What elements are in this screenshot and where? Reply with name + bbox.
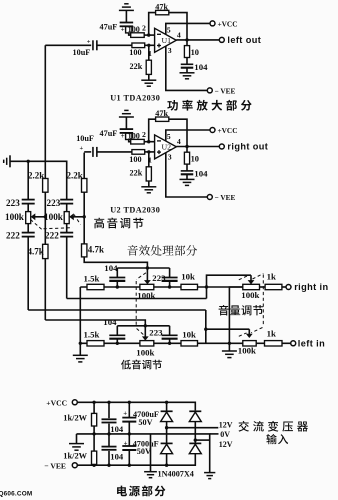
bass R node1 xyxy=(116,285,119,288)
U1 wire pin1->22k xyxy=(148,45,150,60)
label 1N4007X4 xyxy=(158,470,194,479)
svg-text:0V: 0V xyxy=(220,430,230,439)
U1 label 104 xyxy=(194,62,208,72)
label 100k (bass R) xyxy=(137,291,155,301)
svg-text:1.5k: 1.5k xyxy=(84,274,100,284)
U1 resistor 10 xyxy=(184,46,189,58)
U1 ground (47uF top) xyxy=(119,4,134,11)
svg-text:1k: 1k xyxy=(267,328,276,338)
U2 wire pin3 -VEE xyxy=(166,153,208,197)
svg-text:− VEE: − VEE xyxy=(44,461,66,470)
bass R 223 stem up xyxy=(169,268,171,278)
U1 label 100 b xyxy=(129,48,141,57)
svg-text:100k: 100k xyxy=(44,212,64,222)
wire volL->1k xyxy=(256,342,264,344)
U1 wire output xyxy=(176,39,219,41)
resistor 2.2k (left) xyxy=(43,179,48,193)
diode col L xyxy=(166,402,168,465)
U2 plus 10uF xyxy=(80,145,84,152)
wire 0V link xyxy=(150,434,152,472)
junction bottom rail 129.3 xyxy=(128,464,131,467)
U1 resistor 47k xyxy=(156,10,169,14)
label 222 (right) xyxy=(45,231,59,241)
svg-text:− VEE: − VEE xyxy=(215,193,236,202)
junction top rail 166.6 xyxy=(165,401,168,404)
svg-text:2: 2 xyxy=(142,24,146,33)
svg-text:1k: 1k xyxy=(267,272,276,282)
label 高音调节 xyxy=(94,218,143,229)
ground (under bottom rail) xyxy=(144,472,157,478)
wiper wire L xyxy=(206,328,250,330)
bass L wiper xyxy=(142,326,149,341)
bass L bridge wire xyxy=(117,325,169,327)
gang dashes treble c xyxy=(74,215,81,225)
wiper volume L xyxy=(246,329,253,338)
bottom rail xyxy=(77,455,195,465)
wiper treble L xyxy=(31,213,46,220)
svg-text:+: + xyxy=(121,27,125,34)
diode D4 xyxy=(189,443,201,453)
label 2.2k (left) xyxy=(28,170,44,180)
svg-text:left out: left out xyxy=(227,35,261,45)
capacitor 4700uF b xyxy=(122,446,136,450)
wire 12V bot xyxy=(195,439,209,441)
resistor 1k (R) xyxy=(265,284,282,289)
svg-text:− VEE: − VEE xyxy=(215,86,236,95)
junction mid rail 129.3 xyxy=(128,432,131,435)
svg-text:1.5k: 1.5k xyxy=(84,330,100,340)
wire 1k->leftin xyxy=(282,342,291,344)
wire C down to bus xyxy=(66,237,68,299)
svg-text:+VCC: +VCC xyxy=(218,126,238,135)
svg-text:1N4007X4: 1N4007X4 xyxy=(158,470,194,479)
label 100k (bass L) xyxy=(136,348,154,358)
riser L xyxy=(205,310,207,343)
wire volR->1k xyxy=(260,286,266,288)
wire bass left vertical xyxy=(79,287,81,355)
svg-text:100k: 100k xyxy=(136,348,154,358)
resistor 1k/2W b xyxy=(92,451,97,464)
bass R potentiometer 100k xyxy=(140,284,154,289)
svg-text:5: 5 xyxy=(167,132,171,141)
label right in xyxy=(294,282,328,292)
U1 label -VEE xyxy=(215,86,236,95)
U2 pin 5 xyxy=(167,132,171,141)
U2 ground (47uF top) xyxy=(119,110,134,117)
label 223 (bass L) xyxy=(149,328,163,338)
bass L potentiometer 100k xyxy=(140,341,154,346)
label 1k (R) xyxy=(267,272,276,282)
svg-text:+VCC: +VCC xyxy=(218,19,238,28)
U2 label 104 xyxy=(194,169,208,179)
label 4700uF a xyxy=(133,410,159,419)
wire 1k2W a xyxy=(93,402,95,413)
U1 pin 1 xyxy=(148,49,152,58)
label 2.2k (right) xyxy=(67,170,83,180)
gang dashes volume a2 xyxy=(239,276,248,280)
U2 pin 2 xyxy=(142,130,146,139)
label 功率放大部分 xyxy=(167,100,251,111)
U2 ground (104) xyxy=(180,179,195,185)
U2 wire R100b->pin1 xyxy=(145,151,155,153)
terminal +VCC pwr xyxy=(72,400,77,405)
U1 pin 4 xyxy=(177,30,181,39)
U1 wire 22k->gnd xyxy=(148,74,150,80)
svg-text:22k: 22k xyxy=(130,62,143,71)
svg-text:4: 4 xyxy=(177,30,181,39)
U2 resistor 22k xyxy=(146,167,151,181)
ground (mid rail) xyxy=(69,444,84,451)
U2 wire pin2->47k xyxy=(149,119,156,142)
wire 1k->rightin xyxy=(282,286,286,288)
svg-text:104: 104 xyxy=(194,62,208,72)
svg-text:4: 4 xyxy=(177,137,181,146)
wire 1k2W a2 xyxy=(93,426,95,434)
bass L bridge node xyxy=(144,324,147,327)
U1 wire R10->104 xyxy=(186,58,188,65)
capacitor 223 (left) xyxy=(22,200,35,204)
svg-text:4.7k: 4.7k xyxy=(88,244,104,254)
U2 resistor 100 (pin2) xyxy=(131,139,145,144)
bass L capacitor 223 xyxy=(162,335,178,338)
capacitor 222 (left) xyxy=(22,233,35,237)
potentiometer 100k volume L xyxy=(243,341,256,346)
U2 wire 22k->gnd xyxy=(148,181,150,187)
diode D1 xyxy=(161,411,173,421)
U2 resistor 10 xyxy=(184,152,189,164)
label 100k (treble R) xyxy=(44,212,64,222)
label 223 (bass R) xyxy=(152,273,166,283)
U1 label U1 TDA2030 xyxy=(110,94,160,103)
U1 wire input xyxy=(45,44,91,46)
svg-text:10: 10 xyxy=(191,48,199,57)
bass R resistor 10k xyxy=(181,284,198,289)
svg-text:10: 10 xyxy=(191,155,199,164)
wiper volume R xyxy=(248,275,255,284)
U1 resistor 22k xyxy=(146,60,151,74)
label 交流变压器 xyxy=(239,421,308,432)
junction gnd vertical xyxy=(228,342,231,345)
svg-text:104: 104 xyxy=(103,317,117,327)
wire C 223->pot xyxy=(66,204,68,212)
U2 node output xyxy=(185,145,188,148)
U1 terminal -VEE xyxy=(207,88,212,93)
plus 4700a xyxy=(123,410,127,417)
label 4.7k (left) xyxy=(28,247,44,257)
U1 node output xyxy=(185,38,188,41)
U2 wire R10->104 xyxy=(186,164,188,171)
junction bottom rail 166.6 xyxy=(165,464,168,467)
potentiometer 100k treble L xyxy=(26,212,31,224)
gang dashes bass v xyxy=(135,281,137,327)
svg-text:+: + xyxy=(87,39,91,46)
bus A xyxy=(28,309,206,311)
svg-text:+: + xyxy=(123,410,127,417)
svg-text:U1 TDA2030: U1 TDA2030 xyxy=(110,94,160,103)
terminal right in xyxy=(286,285,291,290)
bass L 104 stem up xyxy=(116,326,118,336)
U1 plus 10uF xyxy=(87,39,91,46)
svg-text:47k: 47k xyxy=(155,2,168,11)
junction top rail 109.0 xyxy=(107,401,110,404)
svg-text:22k: 22k xyxy=(130,169,143,178)
label 104 a xyxy=(110,424,124,434)
wire D 2.2k->junction xyxy=(83,192,85,244)
U2 label 47k xyxy=(155,109,168,118)
gang dashes volume a xyxy=(253,274,264,280)
U1 label 10uF xyxy=(73,48,91,57)
U1 wire out->R10 xyxy=(186,40,188,46)
U2 op-amp U2 TDA2030 xyxy=(155,135,177,159)
resistor 1k/2W a xyxy=(92,413,97,426)
svg-text:+: + xyxy=(80,145,84,152)
U1 label 47uF xyxy=(100,22,118,31)
label 音量调节 xyxy=(219,305,264,316)
label 100k (vol L) xyxy=(238,346,256,356)
bass L resistor 10k xyxy=(181,341,198,346)
label 12V top xyxy=(219,420,233,429)
svg-text:100k: 100k xyxy=(238,346,256,356)
bass R 104 stem up xyxy=(116,268,118,278)
U1 wire R100b->pin1 xyxy=(145,44,155,46)
label 1.5k (R) xyxy=(84,274,100,284)
U2 pin 3 xyxy=(168,152,172,161)
label -VEE pwr xyxy=(44,461,66,470)
U1 wire 10uF->R100b xyxy=(97,44,132,46)
U1 capacitor 10uF xyxy=(93,40,97,50)
U1 node pin2 xyxy=(147,33,150,36)
U1 terminal +VCC xyxy=(210,21,215,26)
U1 label 22k xyxy=(130,62,143,71)
U2 wire R100a->pin2 xyxy=(144,141,154,143)
wire column B xyxy=(44,45,46,178)
label 100k (vol R) xyxy=(241,290,259,300)
label 222 (left) xyxy=(6,231,20,241)
label +VCC pwr xyxy=(46,398,67,407)
U1 label left out xyxy=(227,35,261,45)
bass L 223 stem up xyxy=(169,326,171,336)
U1 resistor 100 (pin1) xyxy=(132,43,145,48)
bass L 104 stem dn xyxy=(116,339,118,344)
mid rail xyxy=(77,434,210,473)
resistor 2.2k (right) xyxy=(82,179,87,193)
wire 4700b2 xyxy=(128,450,130,465)
terminal -VEE pwr xyxy=(72,463,77,468)
junction top rail 94.1 xyxy=(92,401,95,404)
U2 label 47uF xyxy=(100,129,118,138)
U2 capacitor 104 xyxy=(181,171,194,174)
U2 wire out->R10 xyxy=(186,147,188,153)
label 低音调节 xyxy=(121,360,162,370)
U1 pin 2 xyxy=(142,24,146,33)
capacitor 4700uF a xyxy=(122,418,136,422)
svg-text:10k: 10k xyxy=(182,330,196,340)
U2 label 22k xyxy=(130,169,143,178)
U2 wire pin1->22k xyxy=(148,152,150,167)
gang dashes treble b xyxy=(44,228,73,229)
0V stub xyxy=(210,433,219,435)
bass R row wire 2 xyxy=(154,286,243,288)
bass R capacitor 223 xyxy=(162,278,178,281)
svg-text:+: + xyxy=(121,133,125,140)
wire 4700a xyxy=(128,402,130,417)
svg-text:223: 223 xyxy=(47,198,61,208)
svg-text:left in: left in xyxy=(298,338,325,348)
wire B 2.2k->junction xyxy=(44,192,46,244)
bass L capacitor 104 xyxy=(109,335,125,338)
svg-text:12V: 12V xyxy=(219,420,233,429)
svg-text:10uF: 10uF xyxy=(76,134,94,143)
gang dashes bass a xyxy=(136,273,146,280)
gang dashes volume v xyxy=(262,275,264,327)
svg-text:U2 TDA2030: U2 TDA2030 xyxy=(110,206,160,215)
wire ground rail xyxy=(10,161,67,199)
U2 plus 47uF xyxy=(121,133,125,140)
svg-text:222: 222 xyxy=(6,231,20,241)
U2 wire pin5 xyxy=(166,130,210,141)
bass L row wire 2 xyxy=(154,342,243,344)
U2 terminal -VEE xyxy=(207,195,212,200)
U2 wire 47k->out xyxy=(169,119,187,146)
wiper treble R xyxy=(69,213,84,220)
bass L 223 stem dn xyxy=(169,339,171,344)
svg-text:Q606.COM: Q606.COM xyxy=(0,490,32,497)
bass R capacitor 104 xyxy=(109,278,125,281)
svg-text:4.7k: 4.7k xyxy=(28,247,44,257)
svg-text:12V: 12V xyxy=(219,440,233,449)
bass L node2 xyxy=(168,342,171,345)
U2 label 100 b xyxy=(129,155,141,164)
svg-text:+VCC: +VCC xyxy=(46,398,67,407)
U1 label +VCC xyxy=(218,19,238,28)
U2 capacitor 47uF xyxy=(120,129,133,133)
label 1k/2W b xyxy=(63,452,87,461)
U1 wire pin5 xyxy=(166,23,210,34)
bass R 223 stem dn xyxy=(169,281,171,287)
label 104 b xyxy=(110,451,124,461)
label left in xyxy=(298,338,325,348)
junction treble R wiper xyxy=(83,215,86,218)
U2 wire 47uF->R100a xyxy=(129,140,131,142)
svg-text:104: 104 xyxy=(104,263,118,273)
svg-text:2.2k: 2.2k xyxy=(28,170,44,180)
gang dashes treble a xyxy=(31,220,43,231)
wire D to bass bridge xyxy=(84,257,147,268)
U2 47uF neg electrode box xyxy=(126,133,132,139)
ground (bass left) xyxy=(73,355,88,362)
junction top rail 129.3 xyxy=(128,401,131,404)
bass R resistor 1.5k xyxy=(87,284,104,289)
U1 47uF neg electrode box xyxy=(126,27,132,33)
label 100k (treble L) xyxy=(5,212,25,222)
svg-text:223: 223 xyxy=(152,273,166,283)
bass R node2 xyxy=(168,285,171,288)
riser R xyxy=(207,275,252,298)
U2 pin 4 xyxy=(177,137,181,146)
svg-text:1k/2W: 1k/2W xyxy=(63,452,87,461)
U2 label +VCC xyxy=(218,126,238,135)
junction A top xyxy=(27,160,30,163)
label 1.5k (L) xyxy=(84,330,100,340)
junction treble L wiper xyxy=(44,215,47,218)
wire 4700a2 xyxy=(128,422,130,434)
wire 104b2 xyxy=(108,451,110,465)
svg-text:U2: U2 xyxy=(162,143,172,152)
U2 node pin2 xyxy=(147,140,150,143)
label 10k (R) xyxy=(181,272,195,282)
U1 op-amp U1 TDA2030 xyxy=(155,28,177,52)
junction D left xyxy=(165,426,168,429)
resistor 4.7k (left) xyxy=(43,244,48,258)
terminal left in xyxy=(291,341,296,346)
svg-text:100: 100 xyxy=(128,25,140,34)
svg-text:104: 104 xyxy=(110,451,124,461)
ground (volume) xyxy=(222,351,237,358)
U1 pin 5 xyxy=(167,25,171,34)
svg-text:100: 100 xyxy=(128,131,140,140)
ground (0V) xyxy=(204,473,215,479)
bass R row wire xyxy=(80,286,140,288)
mid rail gnd stub xyxy=(76,434,78,444)
svg-text:100k: 100k xyxy=(5,212,25,222)
label 电源部分 xyxy=(117,485,165,496)
ground (input, left) xyxy=(4,155,10,167)
label 输入 xyxy=(266,434,288,444)
U1 pin 3 xyxy=(168,46,172,55)
svg-text:+: + xyxy=(124,440,128,447)
bass R 104 stem dn xyxy=(116,281,118,287)
bass L row wire xyxy=(80,342,140,344)
U2 wire 104->gnd xyxy=(186,174,188,179)
junction bottom rail 94.1 xyxy=(92,464,95,467)
resistor 1k (L) xyxy=(265,341,283,346)
wire A pot->222 xyxy=(27,224,29,233)
U2 resistor 100 (pin1) xyxy=(132,150,145,155)
U2 capacitor 10uF xyxy=(93,147,97,157)
svg-text:223: 223 xyxy=(6,198,20,208)
potentiometer 100k volume R xyxy=(243,284,260,289)
label 1k (L) xyxy=(267,328,276,338)
svg-text:47uF: 47uF xyxy=(100,129,118,138)
bass R bridge node xyxy=(146,266,149,269)
gang dashes volume b2 xyxy=(239,333,247,336)
svg-text:right in: right in xyxy=(294,282,328,292)
U2 wire output xyxy=(176,146,219,148)
wire 104a xyxy=(108,402,110,418)
U2 label U2 TDA2030 xyxy=(110,206,160,215)
junction mid rail 94.1 xyxy=(92,432,95,435)
bus B xyxy=(45,320,145,326)
junction bottom rail 109.0 xyxy=(107,464,110,467)
U2 ground (22k) xyxy=(141,187,156,193)
bass R bridge wire xyxy=(117,267,169,269)
U2 resistor 47k xyxy=(156,117,169,121)
capacitor 104 b xyxy=(102,447,117,450)
label 104 (L) xyxy=(103,317,117,327)
U1 capacitor 47uF xyxy=(120,23,133,27)
label 10k (L) xyxy=(182,330,196,340)
label 223 (left) xyxy=(6,198,20,208)
U1 label 47k xyxy=(155,2,168,11)
U2 wire gnd->47uF xyxy=(125,117,127,129)
wire 12V top xyxy=(167,427,219,429)
U1 wire pin3 -VEE xyxy=(166,46,208,90)
U2 label 10 xyxy=(191,155,199,164)
svg-text:right out: right out xyxy=(227,142,268,152)
diode D3 xyxy=(161,443,173,453)
U1 label 10 xyxy=(191,48,199,57)
svg-text:5: 5 xyxy=(167,25,171,34)
